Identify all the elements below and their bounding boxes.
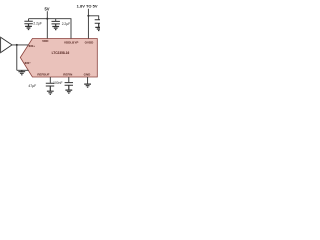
ground below C3 (clipped) xyxy=(95,23,102,30)
wire 5V to VDD pin xyxy=(46,11,48,38)
wire OVDD branch xyxy=(88,16,98,20)
wire VDDLBYP rail xyxy=(47,19,71,39)
svg-text:REFBUF: REFBUF xyxy=(37,73,49,77)
svg-text:2.2µF: 2.2µF xyxy=(62,22,70,26)
node: 5V rail junction xyxy=(46,18,48,20)
svg-text:OVDD: OVDD xyxy=(85,40,95,44)
wire REFBUF pin xyxy=(49,77,51,83)
ground below C2 xyxy=(52,24,59,30)
ground below C4 xyxy=(47,86,54,94)
wire op-amp output to IN0+ xyxy=(12,44,28,46)
wire 5V rail xyxy=(29,18,48,20)
svg-text:VDD: VDD xyxy=(42,39,49,43)
svg-text:IN0−: IN0− xyxy=(25,61,32,65)
capacitor C2 plates xyxy=(52,21,60,24)
wire OVDD drop xyxy=(87,9,89,39)
ground at IN0- net xyxy=(18,70,25,75)
op-amp A1 xyxy=(1,37,12,52)
wire to IN0- xyxy=(17,69,29,71)
node: op-amp output junction xyxy=(16,44,18,46)
capacitor C1 plates xyxy=(24,21,32,24)
node: OVDD junction xyxy=(87,15,89,17)
svg-text:5V: 5V xyxy=(44,6,49,11)
capacitor C1 2.2uF stub xyxy=(28,19,30,21)
wire GND pin xyxy=(87,77,89,84)
ADC U1 LTC2358-16 body xyxy=(20,39,97,78)
svg-text:LTC2358-16: LTC2358-16 xyxy=(52,51,70,55)
ground below GND pin xyxy=(84,84,91,87)
svg-text:100nF: 100nF xyxy=(53,81,62,85)
svg-text:2.2µF: 2.2µF xyxy=(33,22,42,26)
capacitor C4 47uF plates xyxy=(46,83,54,86)
ground below C1 xyxy=(25,24,32,30)
wire REFIN pin xyxy=(68,77,70,82)
svg-text:1.8V TO 5V: 1.8V TO 5V xyxy=(77,3,98,8)
svg-text:VDDLBYP: VDDLBYP xyxy=(64,40,78,44)
wire feedback down xyxy=(16,45,18,70)
capacitor C3 plates (clipped) xyxy=(95,20,102,24)
svg-text:REFIN: REFIN xyxy=(63,73,72,77)
capacitor C2 2.2uF stub xyxy=(55,19,57,22)
svg-text:IN0+: IN0+ xyxy=(29,44,36,48)
svg-text:GND: GND xyxy=(84,73,92,77)
capacitor C5 100nF plates xyxy=(65,83,73,86)
svg-text:47µF: 47µF xyxy=(28,84,36,88)
ground below C5 xyxy=(65,85,72,93)
